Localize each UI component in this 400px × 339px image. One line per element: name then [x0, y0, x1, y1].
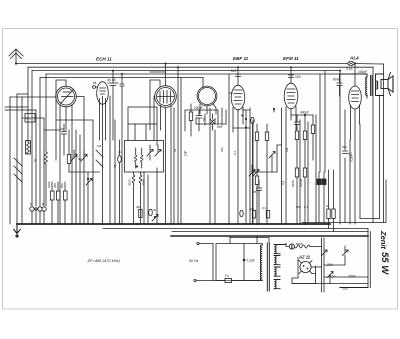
- trimmer arrow A1: [71, 150, 77, 161]
- wire h 124: [185, 110, 226, 124]
- trimmer arrow A8: [269, 152, 275, 173]
- wire B+ line: [302, 180, 386, 223]
- wire transformer top feed: [230, 236, 257, 244]
- svg-text:EFM 11: EFM 11: [283, 56, 299, 61]
- svg-text:5nF: 5nF: [217, 125, 223, 129]
- ground bus: [17, 223, 330, 225]
- cap C4 top: [108, 71, 118, 96]
- wire lower bus 3: [172, 231, 368, 233]
- wire top bus A: [16, 63, 383, 66]
- junction dot: [87, 178, 89, 180]
- wire left horiz stubs: [10, 96, 56, 98]
- cap ellipse C11: [113, 140, 121, 224]
- svg-text:5000: 5000: [291, 180, 295, 187]
- svg-text:0,1A: 0,1A: [346, 67, 353, 71]
- trimmer C-row left: [30, 207, 46, 224]
- power transformer TR1: [260, 243, 286, 291]
- svg-text:0,3: 0,3: [304, 205, 309, 209]
- wire top bus D: [46, 73, 330, 75]
- wire lower bus 4: [171, 235, 368, 237]
- selector switch: [328, 272, 334, 284]
- electrolytic arrow E1: [322, 250, 328, 256]
- wire az11 left: [292, 258, 299, 284]
- svg-text:300: 300: [53, 183, 57, 188]
- resistor R17: [332, 170, 335, 232]
- cap C16 0,1: [343, 151, 353, 156]
- wire h ebf: [233, 110, 250, 128]
- cap C13: [196, 110, 202, 124]
- resistor R15: [303, 160, 306, 224]
- svg-text:4n: 4n: [33, 158, 37, 162]
- wire right frame vertical: [367, 229, 369, 288]
- mains lead L: [196, 244, 225, 281]
- junction dots left: [51, 223, 53, 225]
- svg-text:20k: 20k: [342, 145, 347, 149]
- svg-text:25: 25: [253, 190, 257, 194]
- junction dot efm: [273, 108, 275, 110]
- svg-text:80nF: 80nF: [333, 78, 341, 82]
- fuse F2 top: [346, 62, 354, 72]
- coil L1: [26, 141, 31, 155]
- wire h 283.5: [292, 283, 368, 285]
- wire h under T1: [69, 171, 100, 173]
- resistor R3: [64, 182, 68, 224]
- resistor R2: [57, 182, 61, 224]
- switch box MW/LW: [25, 114, 35, 123]
- bottom row caps ebf: [240, 210, 270, 218]
- cap ellipse C12: [149, 208, 157, 216]
- wire h 277: [324, 276, 368, 278]
- tube T1 mixer circle: [56, 80, 84, 130]
- wire transformer top right: [230, 238, 269, 244]
- junction dots ebf: [241, 114, 243, 116]
- svg-text:AZ 11: AZ 11: [298, 255, 311, 260]
- diode D1: [210, 114, 215, 130]
- trimmer arrow A5: [155, 145, 161, 156]
- field coil L7: [286, 242, 322, 249]
- switch S1: [14, 158, 22, 182]
- vertical pair right of az: [322, 238, 325, 292]
- far right verticals: [373, 64, 383, 223]
- switch S2: [96, 150, 103, 167]
- wire h efm top: [291, 114, 313, 116]
- wire T1 cathode drop: [55, 84, 57, 160]
- svg-text:100pF: 100pF: [358, 70, 368, 74]
- wire verticals bf zone: [128, 80, 157, 145]
- svg-text:ECH 11: ECH 11: [96, 57, 112, 62]
- cap C17 mains: [244, 244, 255, 281]
- wire h right 218: [360, 218, 380, 220]
- trimmer arrow A4: [147, 145, 153, 156]
- resistor R11: [295, 131, 298, 160]
- svg-text:400pF: 400pF: [300, 111, 309, 115]
- svg-text:230: 230: [342, 287, 348, 291]
- cap ellipse C14: [251, 117, 254, 224]
- wire bottom frame: [340, 287, 368, 289]
- bandfilter box BF1: [125, 107, 164, 172]
- svg-text:0,1: 0,1: [281, 180, 285, 185]
- wire verticals under T3: [150, 155, 157, 224]
- svg-text:1k: 1k: [173, 148, 177, 152]
- svg-text:6,8: 6,8: [97, 144, 102, 148]
- wire top bus B: [28, 66, 373, 68]
- wire top bus E: [40, 76, 203, 78]
- svg-text:50 Hz: 50 Hz: [189, 259, 199, 263]
- wire into transformer: [232, 280, 262, 282]
- wire verticals T1 zone: [60, 120, 93, 224]
- cap C18 25: [253, 180, 262, 224]
- wire left taps: [5, 107, 28, 110]
- svg-text:5nF: 5nF: [231, 69, 237, 73]
- resistor R5 70k: [67, 130, 70, 172]
- wire right frame vertical 2: [369, 232, 371, 288]
- wire left nest verticals: [27, 67, 29, 142]
- wire az11 bottom: [312, 266, 316, 284]
- svg-text:1nF: 1nF: [184, 150, 188, 156]
- svg-text:EBF 11: EBF 11: [233, 56, 249, 61]
- resistor R12: [303, 115, 306, 160]
- trimmer arrow A9: [252, 170, 259, 177]
- svg-text:AL4: AL4: [349, 56, 359, 61]
- svg-text:110: 110: [330, 275, 336, 279]
- electrolytic arrow E2: [343, 246, 349, 265]
- wire verticals efm zone: [286, 115, 316, 224]
- svg-text:0,1µF: 0,1µF: [247, 259, 255, 263]
- mains plug stubs: [197, 242, 199, 244]
- coil circle T4: [197, 77, 217, 114]
- wire verticals right zone: [320, 71, 360, 224]
- fuse F1: [225, 274, 232, 283]
- svg-text:40n: 40n: [249, 207, 254, 211]
- electrolytic caps block: [317, 172, 326, 223]
- svg-text:55 W: 55 W: [379, 252, 390, 275]
- svg-text:30k: 30k: [220, 147, 224, 152]
- svg-text:0,1: 0,1: [233, 150, 237, 155]
- cap C8 80nF: [330, 74, 342, 96]
- svg-text:ZF=468 (472 kHz): ZF=468 (472 kHz): [87, 258, 121, 263]
- resistor R6 40n: [136, 205, 142, 218]
- coil L5 3050: [128, 172, 135, 224]
- svg-text:50: 50: [78, 157, 82, 161]
- wire top bus C: [32, 70, 340, 72]
- tube T6 oval EFM: [284, 67, 298, 128]
- resistor R1: [51, 182, 55, 224]
- wire verticals T4 zone: [185, 108, 226, 224]
- tube T7 oval AL4: [349, 64, 362, 141]
- svg-text:5k: 5k: [153, 208, 157, 212]
- svg-text:10000: 10000: [299, 178, 303, 187]
- cap C5 top: [120, 74, 124, 96]
- svg-text:3050: 3050: [142, 179, 146, 186]
- trimmer arrow A2: [81, 150, 87, 161]
- junction dots extra: [165, 63, 167, 65]
- junction dot bf: [136, 165, 138, 167]
- svg-text:3050: 3050: [128, 179, 132, 186]
- junction dot lower: [154, 216, 156, 218]
- wire verticals T2 zone: [110, 96, 122, 224]
- svg-text:5000: 5000: [296, 242, 303, 246]
- resistor R14: [295, 160, 298, 224]
- tube T3 osc circle: [150, 72, 176, 224]
- tube T2 oval: [97, 82, 109, 224]
- wire lower bus 2: [103, 228, 368, 230]
- grid cap dot T2: [93, 86, 97, 89]
- cap C10 4n: [60, 124, 67, 155]
- svg-text:4n 48: 4n 48: [107, 78, 116, 82]
- coil L3 in box: [135, 148, 137, 168]
- rectifier AZ11: [299, 261, 312, 274]
- speaker LS: [376, 73, 394, 96]
- wire h 265: [324, 264, 345, 266]
- EBF section wires: [229, 74, 253, 224]
- resistor R13: [311, 115, 314, 160]
- mains box verticals: [213, 244, 261, 281]
- trimmer arrow A6: [152, 215, 158, 222]
- tube T5 oval EBF: [229, 67, 245, 128]
- svg-text:0,5M: 0,5M: [350, 155, 354, 162]
- svg-text:4n: 4n: [60, 127, 64, 131]
- ground symbol: [14, 224, 20, 238]
- svg-text:100pF: 100pF: [194, 106, 203, 110]
- wire h T3 top: [150, 64, 166, 73]
- junction dot mains: [243, 259, 246, 262]
- svg-text:2k: 2k: [326, 204, 330, 208]
- wire h mid-left: [56, 119, 93, 121]
- wire az11 right to bus: [311, 266, 321, 268]
- svg-text:0,1: 0,1: [262, 206, 267, 210]
- coil L6 3050: [139, 172, 145, 224]
- resistor R8: [255, 124, 258, 160]
- trimmer arrow A3: [86, 172, 92, 224]
- svg-text:6k: 6k: [93, 81, 97, 85]
- svg-text:50: 50: [202, 117, 206, 121]
- wire verticals 265-282: [274, 108, 282, 224]
- resistor R7: [189, 104, 192, 130]
- svg-text:40n: 40n: [136, 205, 141, 209]
- cap C7: [289, 75, 301, 79]
- svg-text:Fu: Fu: [225, 274, 229, 278]
- svg-text:50k: 50k: [60, 183, 64, 188]
- antenna: [9, 49, 23, 65]
- svg-text:100k: 100k: [47, 181, 51, 188]
- trimmer arrow A7: [249, 165, 255, 176]
- cap C6 5nF: [231, 69, 241, 77]
- resistor R16: [327, 170, 330, 229]
- output transformer TR2: [340, 74, 373, 98]
- coil L2: [45, 152, 48, 206]
- cap C15: [295, 115, 300, 130]
- svg-text:Zenit: Zenit: [379, 230, 388, 249]
- wire bottom h az: [292, 283, 316, 285]
- svg-text:100: 100: [295, 75, 301, 79]
- svg-text:50k: 50k: [296, 205, 301, 209]
- svg-text:M L: M L: [26, 117, 31, 121]
- resistor R10: [255, 160, 258, 224]
- resistor R9: [265, 124, 268, 224]
- svg-text:220V: 220V: [348, 275, 357, 279]
- junction dot top: [304, 114, 306, 116]
- coil L4 in box: [141, 148, 143, 168]
- svg-text:4n: 4n: [118, 150, 122, 154]
